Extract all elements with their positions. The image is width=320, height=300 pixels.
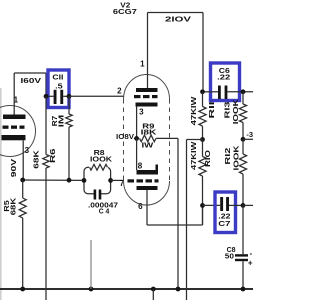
wire into C7 [203, 204, 221, 206]
svg-text:-: - [249, 249, 252, 258]
wire 210V plate supply [148, 12, 204, 14]
svg-text:+: + [248, 258, 253, 267]
wire up to C7 left node [202, 205, 204, 225]
svg-text:.5: .5 [55, 83, 63, 91]
svg-text:.22: .22 [217, 74, 230, 82]
svg-text:CII: CII [52, 73, 63, 81]
svg-text:1: 1 [140, 60, 145, 69]
svg-text:8: 8 [138, 162, 143, 171]
svg-text:R6: R6 [48, 149, 57, 164]
resistor R6 68K [43, 155, 49, 169]
svg-text:IOOK: IOOK [232, 145, 241, 171]
svg-text:68K: 68K [32, 149, 41, 168]
svg-text:I60V: I60V [21, 76, 42, 85]
wire R9 right [156, 137, 178, 139]
wire C11 to V2 pin 2 grid [69, 95, 124, 97]
wire down to C11 left node [45, 73, 47, 96]
wire down to C8 [242, 205, 244, 254]
node C6 right junction [241, 89, 246, 94]
wire into C6 [203, 91, 218, 93]
V1 cathode [2, 135, 26, 140]
wire C11 left node down to R6 [45, 96, 47, 154]
svg-text:IOOK: IOOK [90, 154, 113, 163]
svg-text:C 4: C 4 [99, 206, 110, 215]
V2 bottom plate riser [156, 165, 159, 171]
capacitor C6 highlight box [211, 63, 240, 101]
node R7 bottom junction [67, 178, 72, 183]
svg-text:IM: IM [56, 115, 65, 128]
svg-text:47KIW: 47KIW [189, 142, 198, 171]
wire R6 bottom crossing ground rail off page [45, 168, 47, 300]
wire V2 pin 6 cathode lead [146, 190, 148, 225]
wire out C11 right plate [63, 95, 69, 97]
svg-text:2IOV: 2IOV [165, 15, 191, 24]
node C8 ground [241, 287, 246, 292]
svg-text:RII: RII [207, 102, 216, 119]
wire stub below rail [152, 289, 154, 300]
capacitor C7 highlight box [215, 192, 236, 233]
svg-text:3: 3 [139, 107, 144, 116]
svg-text:6CG7: 6CG7 [113, 7, 137, 16]
node R5 ground [20, 287, 25, 292]
resistor R13 100K [242, 92, 244, 104]
wire 90V cathode bus [23, 179, 84, 181]
svg-text:90V: 90V [9, 159, 18, 177]
resistor R12 100K [242, 139, 244, 154]
resistor R11 47K 1W [202, 92, 204, 107]
node C11 left junction [44, 94, 49, 99]
node ground stub [89, 287, 94, 292]
svg-text:IOOK: IOOK [231, 98, 240, 124]
V2 top grid (dashed) [134, 95, 141, 98]
capacitor C11 highlight box [48, 70, 69, 108]
V2 bottom cathode [137, 186, 158, 190]
resistor R7 1M [66, 114, 72, 127]
resistor R5 68K [22, 180, 24, 198]
wire C8 to ground rail [242, 261, 244, 289]
left page edge shading [0, 88, 2, 300]
capacitor C4 plates [96, 190, 99, 200]
wire down to C6 node [202, 13, 204, 92]
V1 plate [3, 115, 26, 120]
svg-text:68K: 68K [8, 197, 17, 215]
V2 top cathode [136, 103, 158, 107]
node heater stub ground [151, 287, 156, 292]
wire into C11 left plate [46, 95, 54, 97]
wire C11 right node down to R7 [68, 96, 70, 114]
node R8C4 right [108, 178, 113, 183]
wire R7 bottom to 90V bus [68, 127, 70, 180]
node R8C4 left [82, 178, 87, 183]
resistor R10 47K 1W [199, 157, 206, 177]
wire faded stub above rail [90, 240, 92, 289]
wire node down to V2 bottom plate pin 8 [136, 138, 138, 170]
wire to V2 pin 7 grid [111, 179, 124, 181]
wire cathode down to R9 node [136, 107, 138, 139]
svg-text:47KIW: 47KIW [189, 97, 198, 126]
node R11 R10 junction [200, 137, 205, 142]
capacitor C8 50uF plates [235, 254, 248, 256]
V1 grid (dashed) [3, 126, 9, 129]
svg-text:1: 1 [14, 96, 19, 105]
node R13 R12 junction [241, 137, 246, 142]
node R9 ground [176, 287, 181, 292]
wire R5 bottom to ground rail [22, 218, 24, 289]
V2 top plate [136, 88, 158, 92]
wire C6 out to page edge [227, 91, 253, 93]
node C7 right junction [241, 203, 246, 208]
wire C7 out [229, 204, 243, 206]
wire V1 cathode to node [22, 140, 24, 180]
tube V1 envelope (partial, off page left) [0, 106, 36, 157]
V2 bottom plate [137, 170, 159, 175]
V2 bottom grid (dashed) [128, 179, 135, 182]
svg-text:-3: -3 [246, 130, 253, 139]
wire 160V horizontal [14, 72, 46, 74]
svg-text:3: 3 [25, 146, 30, 155]
tube V2 envelope [124, 75, 170, 100]
wire V2 pin 1 plate lead [147, 13, 149, 89]
wire V1 plate lead (pin 1) [13, 73, 15, 115]
svg-text:IO8V.: IO8V. [116, 132, 136, 141]
wire R10 bottom to pin 6 node [202, 176, 204, 225]
svg-text:6: 6 [138, 202, 143, 211]
node C7 left junction [200, 203, 205, 208]
svg-text:C7: C7 [218, 220, 230, 228]
node C6 left junction [200, 89, 205, 94]
capacitor C7 plates [220, 197, 223, 211]
R8 C4 parallel loop [84, 167, 111, 193]
node R5 top junction [20, 178, 25, 183]
svg-text:RIO: RIO [203, 150, 212, 167]
wire ground rail [0, 288, 253, 290]
capacitor C11 plates [54, 90, 57, 104]
resistor R9 18K 1W [140, 135, 157, 142]
svg-text:2: 2 [117, 86, 122, 95]
node C11 right junction [67, 94, 72, 99]
capacitor C6 plates [218, 86, 221, 100]
wire down crossing rail off page [186, 140, 188, 300]
wire pin 6 horizontal [147, 224, 203, 226]
svg-text:I8K: I8K [141, 128, 158, 137]
resistor R8 100K [89, 164, 108, 172]
wire C7 node to page edge [243, 204, 253, 206]
wire junction left [187, 139, 203, 141]
svg-text:50: 50 [225, 253, 234, 261]
node 108V junction [134, 136, 139, 141]
wire junction to page edge [243, 138, 253, 140]
wire R9 node down to ground rail [177, 138, 179, 289]
